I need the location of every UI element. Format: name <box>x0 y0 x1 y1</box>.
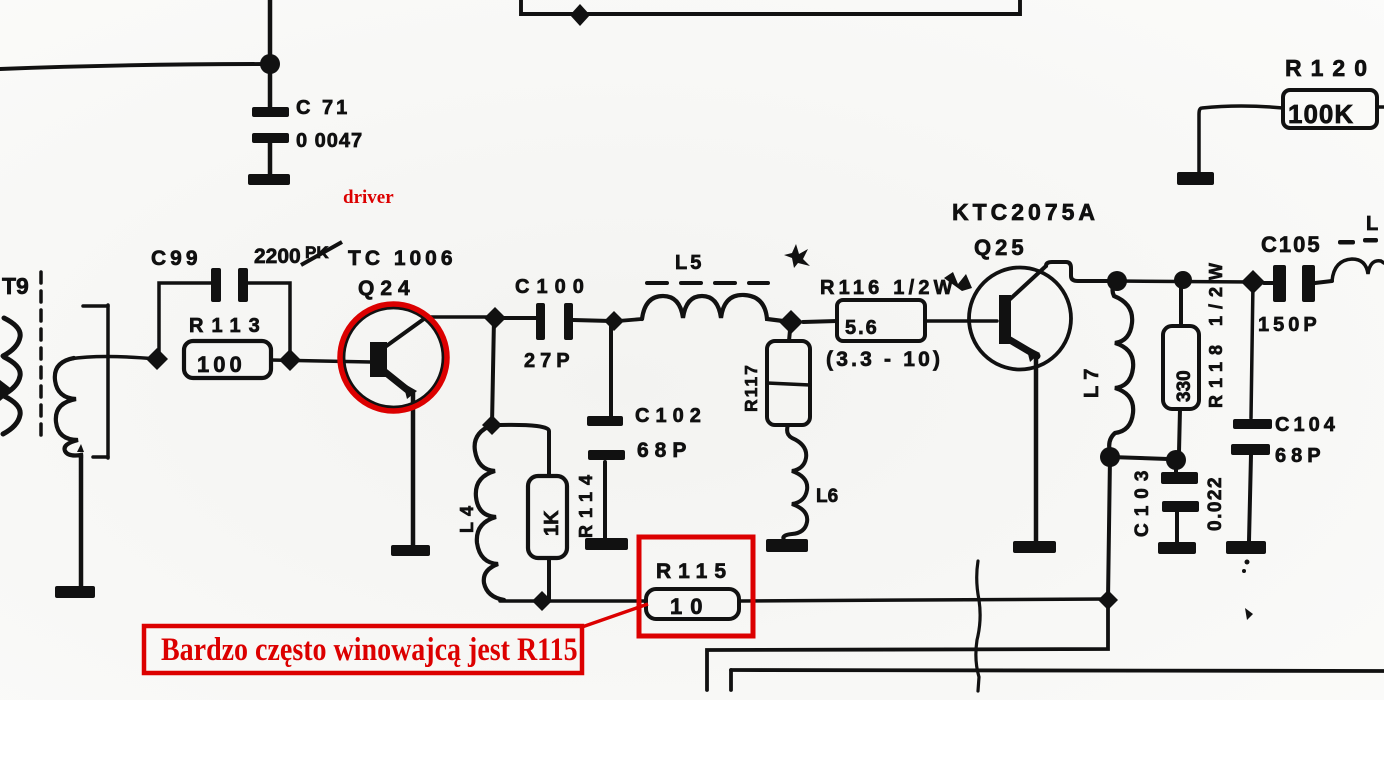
svg-text:C100: C100 <box>515 276 591 298</box>
svg-text:0 0047: 0 0047 <box>296 130 363 152</box>
svg-text:100: 100 <box>197 352 246 377</box>
svg-text:C99: C99 <box>151 247 202 270</box>
svg-text:R117: R117 <box>741 363 761 412</box>
svg-text:R113: R113 <box>189 315 268 337</box>
svg-text:100K: 100K <box>1288 99 1354 129</box>
svg-text:150P: 150P <box>1258 314 1321 336</box>
svg-text:L5: L5 <box>675 252 704 274</box>
svg-text:C 71: C 71 <box>296 97 350 119</box>
svg-text:68P: 68P <box>637 439 692 462</box>
svg-text:R114: R114 <box>576 468 596 538</box>
svg-text:R120: R120 <box>1285 55 1376 81</box>
svg-text:Q25: Q25 <box>974 235 1028 260</box>
svg-text:C104: C104 <box>1275 414 1339 436</box>
svg-text:C102: C102 <box>635 405 707 427</box>
svg-text:R115: R115 <box>656 560 733 583</box>
svg-text:330: 330 <box>1174 370 1195 402</box>
svg-text:1K: 1K <box>541 510 563 536</box>
svg-text:Bardzo często winowajcą jest R: Bardzo często winowajcą jest R115 <box>161 631 578 668</box>
svg-text:10: 10 <box>670 594 710 619</box>
svg-text:0.022: 0.022 <box>1205 476 1226 531</box>
svg-text:5.6: 5.6 <box>845 317 879 339</box>
svg-text:driver: driver <box>343 187 394 208</box>
svg-text:68P: 68P <box>1275 445 1326 467</box>
svg-text:KTC2075A: KTC2075A <box>952 199 1099 225</box>
svg-text:L7: L7 <box>1081 363 1103 398</box>
svg-text:C103: C103 <box>1132 464 1153 537</box>
svg-text:C105: C105 <box>1261 232 1322 257</box>
svg-text:2200: 2200 <box>254 245 301 268</box>
svg-text:T9: T9 <box>2 273 29 299</box>
svg-text:PK: PK <box>305 243 329 262</box>
svg-text:(3.3 - 10): (3.3 - 10) <box>826 348 943 371</box>
svg-text:27P: 27P <box>524 350 575 372</box>
svg-text:R118 1/2W: R118 1/2W <box>1206 256 1226 408</box>
svg-text:R116 1/2W: R116 1/2W <box>820 277 957 299</box>
svg-text:Q24: Q24 <box>358 277 416 300</box>
svg-text:TC 1006: TC 1006 <box>348 247 457 270</box>
svg-text:L: L <box>1366 213 1378 235</box>
svg-text:L6: L6 <box>816 486 838 507</box>
svg-text:L4: L4 <box>457 500 477 533</box>
